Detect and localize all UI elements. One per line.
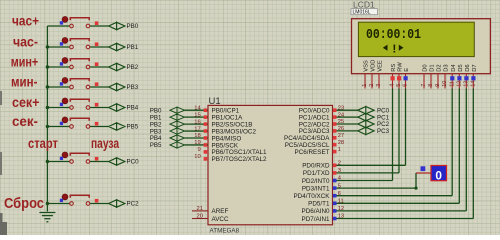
svg-text:VDD: VDD [371, 60, 377, 72]
svg-text:E: E [404, 68, 410, 72]
svg-text:час-: час- [13, 33, 38, 49]
svg-text:00:00:01: 00:00:01 [366, 27, 421, 43]
svg-text:PD1/TXD: PD1/TXD [303, 170, 330, 177]
svg-text:PB3: PB3 [127, 84, 139, 91]
svg-text:2: 2 [369, 84, 375, 87]
svg-text:PB3/MOSI/OC2: PB3/MOSI/OC2 [212, 128, 257, 135]
svg-text:14: 14 [194, 105, 201, 111]
svg-text:ATMEGA8: ATMEGA8 [210, 228, 240, 235]
svg-text:!: ! [391, 42, 398, 56]
svg-text:D2: D2 [437, 64, 443, 71]
svg-text:PD3/INT1: PD3/INT1 [302, 185, 330, 192]
svg-text:AREF: AREF [212, 208, 229, 215]
svg-text:D4: D4 [451, 64, 457, 72]
svg-text:2: 2 [338, 161, 341, 167]
svg-text:LM016L: LM016L [353, 10, 371, 16]
svg-text:PB1: PB1 [127, 44, 139, 51]
svg-text:16: 16 [194, 119, 200, 125]
svg-text:старт: старт [28, 135, 58, 151]
svg-text:D6: D6 [465, 64, 471, 71]
svg-text:14: 14 [471, 81, 477, 87]
svg-text:4: 4 [390, 84, 396, 87]
svg-text:PB5: PB5 [127, 124, 139, 131]
svg-text:Сброс: Сброс [4, 196, 44, 212]
svg-text:27: 27 [338, 133, 344, 139]
svg-text:PB4: PB4 [150, 135, 162, 142]
svg-text:PC6/RESET: PC6/RESET [295, 149, 330, 156]
svg-text:PB5: PB5 [150, 142, 162, 149]
svg-text:3: 3 [376, 84, 382, 87]
svg-text:сек+: сек+ [12, 94, 40, 110]
svg-text:11: 11 [338, 199, 344, 205]
svg-text:12: 12 [338, 206, 344, 212]
svg-text:U1: U1 [209, 96, 221, 107]
svg-text:LCD1: LCD1 [353, 0, 375, 10]
svg-text:1: 1 [362, 84, 368, 87]
svg-text:PB2/SS/OC1B: PB2/SS/OC1B [212, 121, 253, 128]
svg-text:8: 8 [428, 84, 434, 87]
svg-text:пауза: пауза [91, 135, 119, 151]
svg-text:28: 28 [338, 140, 344, 146]
svg-text:D5: D5 [458, 64, 464, 71]
svg-text:PB2: PB2 [127, 64, 139, 71]
svg-text:9: 9 [197, 147, 200, 153]
svg-text:RW: RW [398, 62, 404, 72]
svg-text:PD6/AIN0: PD6/AIN0 [302, 208, 330, 215]
svg-text:PC0: PC0 [127, 159, 140, 166]
svg-text:D7: D7 [472, 64, 478, 71]
svg-text:VEE: VEE [378, 60, 384, 72]
svg-text:PB4: PB4 [127, 105, 139, 112]
svg-text:PD4/T0/XCK: PD4/T0/XCK [293, 193, 330, 200]
svg-text:10: 10 [442, 81, 448, 87]
svg-text:PB2: PB2 [150, 121, 162, 128]
svg-text:PB0: PB0 [127, 23, 139, 30]
svg-text:PD5/T1: PD5/T1 [308, 201, 330, 208]
svg-text:PB0: PB0 [150, 107, 162, 114]
svg-text:13: 13 [338, 214, 344, 220]
svg-text:PC2: PC2 [127, 201, 140, 208]
svg-text:PB6/TOSC1/XTAL1: PB6/TOSC1/XTAL1 [212, 149, 268, 156]
svg-text:18: 18 [194, 133, 200, 139]
svg-text:PB0/ICP1: PB0/ICP1 [212, 108, 240, 115]
svg-text:19: 19 [194, 140, 200, 146]
svg-text:13: 13 [464, 81, 470, 87]
svg-text:15: 15 [194, 112, 200, 118]
svg-text:11: 11 [449, 81, 455, 87]
svg-text:сек-: сек- [12, 113, 38, 129]
svg-text:D3: D3 [444, 64, 450, 71]
svg-text:25: 25 [338, 119, 344, 125]
svg-text:6: 6 [338, 191, 341, 197]
svg-text:PB1/OC1A: PB1/OC1A [212, 114, 244, 121]
svg-text:3: 3 [338, 168, 341, 174]
svg-text:1: 1 [338, 147, 341, 153]
svg-text:VSS: VSS [364, 60, 370, 72]
svg-text:PB1: PB1 [150, 114, 162, 121]
svg-text:17: 17 [194, 126, 200, 132]
svg-text:5: 5 [396, 84, 402, 87]
svg-text:5: 5 [338, 183, 341, 189]
svg-text:26: 26 [338, 126, 344, 132]
svg-text:PB7/TOSC2/XTAL2: PB7/TOSC2/XTAL2 [212, 156, 268, 163]
svg-text:D0: D0 [423, 64, 429, 71]
svg-text:6: 6 [403, 84, 409, 87]
svg-text:12: 12 [457, 81, 463, 87]
svg-text:AVCC: AVCC [212, 216, 229, 223]
svg-text:24: 24 [338, 112, 345, 118]
svg-text:RS: RS [391, 64, 397, 72]
svg-text:10: 10 [194, 154, 200, 160]
svg-text:PD2/INT0: PD2/INT0 [302, 178, 330, 185]
svg-text:0: 0 [435, 168, 442, 182]
svg-text:час+: час+ [12, 12, 39, 28]
svg-text:PB4/MISO: PB4/MISO [212, 135, 242, 142]
svg-text:PD7/AIN1: PD7/AIN1 [302, 216, 330, 223]
svg-text:9: 9 [435, 84, 441, 87]
svg-text:PB3: PB3 [150, 128, 162, 135]
svg-text:мин+: мин+ [11, 53, 39, 69]
svg-text:23: 23 [338, 105, 344, 111]
svg-text:PD0/RXD: PD0/RXD [302, 163, 330, 170]
svg-text:PB5/SCK: PB5/SCK [212, 142, 239, 149]
svg-text:D1: D1 [430, 64, 436, 71]
svg-text:PC3: PC3 [377, 128, 390, 135]
svg-text:мин-: мин- [11, 73, 38, 89]
svg-text:7: 7 [421, 84, 427, 87]
